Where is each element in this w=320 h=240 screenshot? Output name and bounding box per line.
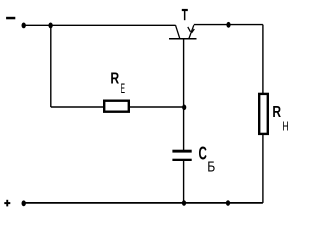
wire: top rail, terminal to RE-branch junction	[24, 24, 51, 26]
svg-text:H: H	[282, 119, 288, 134]
transistor T collector lead	[176, 25, 180, 38]
wire: RH bottom to bottom rail	[262, 135, 264, 203]
node: on bottom rail below top-rail node	[226, 200, 230, 206]
wire: RE branch horizontal into RE	[51, 106, 104, 108]
negative supply terminal label "-"	[6, 17, 15, 20]
positive supply terminal label "+"	[4, 200, 10, 207]
wire: top rail, transistor emitter to right corner	[194, 24, 263, 26]
node: base junction (RE / base / CB)	[182, 105, 186, 111]
resistor RH body	[259, 94, 268, 134]
resistor RE label	[110, 70, 125, 95]
transistor T emitter lead with arrow (PNP)	[188, 25, 195, 38]
wire: bottom rail	[24, 202, 263, 204]
svg-text:R: R	[272, 104, 281, 121]
wire: CB to bottom rail	[183, 161, 185, 203]
negative terminal node	[22, 23, 26, 29]
transistor T label	[182, 9, 188, 20]
resistor RE body	[104, 101, 129, 112]
wire: left vertical of RE branch	[50, 25, 52, 107]
svg-text:E: E	[121, 81, 125, 96]
wire: top rail, junction to transistor collector	[51, 24, 176, 26]
resistor RH label	[272, 104, 288, 134]
capacitor CB label	[199, 144, 216, 176]
svg-text:C: C	[199, 144, 207, 164]
wire: right side, top rail down to RH	[262, 25, 264, 94]
node: CB junction on bottom rail	[182, 200, 186, 206]
capacitor CB top plate	[172, 150, 191, 153]
capacitor CB bottom plate	[172, 159, 191, 161]
wire: junction down to CB	[183, 107, 185, 150]
transistor T base bar	[169, 38, 197, 40]
positive terminal node	[22, 200, 26, 206]
svg-text:R: R	[110, 70, 119, 87]
wire: transistor base down to junction	[183, 39, 185, 107]
node: on top rail right of transistor	[226, 22, 230, 28]
wire: RE to base junction	[129, 106, 184, 108]
node: top of RE branch	[48, 23, 52, 29]
svg-text:Б: Б	[207, 159, 215, 176]
